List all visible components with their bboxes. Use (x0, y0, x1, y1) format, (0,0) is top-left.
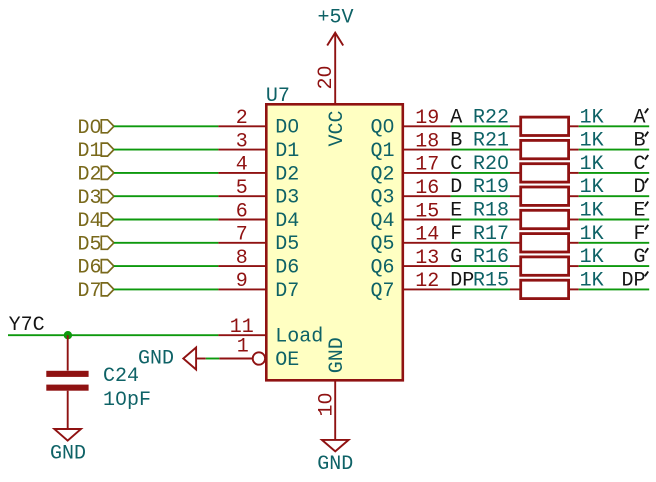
svg-text:D3: D3 (77, 187, 101, 210)
svg-text:19: 19 (415, 107, 439, 130)
svg-text:Q2: Q2 (370, 163, 394, 186)
svg-text:R19: R19 (473, 176, 509, 199)
svg-text:E: E (450, 200, 462, 223)
svg-text:Q0: Q0 (370, 117, 394, 140)
svg-text:D3: D3 (275, 187, 299, 210)
svg-text:R22: R22 (473, 106, 509, 129)
svg-text:1K: 1K (580, 269, 604, 292)
svg-text:D4: D4 (275, 210, 299, 233)
svg-text:D7: D7 (77, 280, 101, 303)
svg-text:10pF: 10pF (103, 389, 151, 412)
svg-text:A: A (450, 106, 462, 129)
svg-text:+5V: +5V (317, 7, 353, 30)
svg-text:GND: GND (317, 453, 353, 476)
svg-text:Q4: Q4 (370, 210, 394, 233)
svg-text:Q7: Q7 (370, 280, 394, 303)
svg-text:D0: D0 (77, 117, 101, 140)
svg-text:G: G (633, 246, 645, 269)
svg-text:GND: GND (326, 337, 349, 373)
svg-text:20: 20 (315, 65, 338, 89)
svg-text:1K: 1K (580, 200, 604, 223)
svg-text:C24: C24 (103, 365, 139, 388)
svg-text:D6: D6 (77, 257, 101, 280)
svg-text:D2: D2 (275, 163, 299, 186)
svg-text:4: 4 (236, 154, 248, 177)
svg-text:1K: 1K (580, 153, 604, 176)
svg-text:D4: D4 (77, 210, 101, 233)
svg-text:3: 3 (236, 130, 248, 153)
svg-text:Q5: Q5 (370, 233, 394, 256)
svg-text:OE: OE (275, 349, 299, 372)
svg-text:U7: U7 (266, 85, 290, 108)
svg-text:D2: D2 (77, 164, 101, 187)
svg-text:1K: 1K (580, 106, 604, 129)
svg-text:G: G (450, 246, 462, 269)
svg-text:17: 17 (415, 154, 439, 177)
svg-text:R16: R16 (473, 246, 509, 269)
svg-text:D6: D6 (275, 257, 299, 280)
svg-text:D1: D1 (275, 140, 299, 163)
svg-text:1K: 1K (580, 223, 604, 246)
svg-text:GND: GND (50, 443, 86, 466)
svg-text:6: 6 (236, 200, 248, 223)
svg-text:D: D (450, 176, 462, 199)
svg-text:E: E (633, 200, 645, 223)
svg-text:1K: 1K (580, 130, 604, 153)
svg-text:A: A (633, 106, 645, 129)
svg-text:F: F (450, 223, 462, 246)
svg-text:13: 13 (415, 247, 439, 270)
svg-text:D7: D7 (275, 280, 299, 303)
svg-text:VCC: VCC (326, 110, 349, 146)
svg-text:1: 1 (237, 336, 249, 359)
svg-text:14: 14 (415, 224, 439, 247)
svg-text:D1: D1 (77, 140, 101, 163)
svg-text:15: 15 (415, 200, 439, 223)
svg-text:C: C (450, 153, 462, 176)
svg-text:Y7C: Y7C (9, 314, 45, 337)
svg-text:18: 18 (415, 130, 439, 153)
svg-text:F: F (633, 223, 645, 246)
svg-text:R15: R15 (473, 269, 509, 292)
svg-text:Q3: Q3 (370, 187, 394, 210)
svg-text:5: 5 (236, 177, 248, 200)
svg-text:R21: R21 (473, 130, 509, 153)
svg-text:D5: D5 (77, 233, 101, 256)
svg-text:8: 8 (236, 247, 248, 270)
svg-text:12: 12 (415, 270, 439, 293)
svg-text:DP: DP (621, 269, 645, 292)
svg-text:D0: D0 (275, 117, 299, 140)
svg-text:B: B (633, 130, 645, 153)
svg-text:GND: GND (138, 348, 174, 371)
svg-text:R18: R18 (473, 200, 509, 223)
svg-text:D5: D5 (275, 233, 299, 256)
svg-text:1K: 1K (580, 176, 604, 199)
svg-text:7: 7 (236, 224, 248, 247)
svg-text:C: C (633, 153, 645, 176)
svg-text:B: B (450, 130, 462, 153)
svg-text:9: 9 (236, 270, 248, 293)
svg-text:10: 10 (315, 392, 338, 416)
svg-text:R17: R17 (473, 223, 509, 246)
svg-text:D: D (633, 176, 645, 199)
svg-text:1K: 1K (580, 246, 604, 269)
svg-text:Q1: Q1 (370, 140, 394, 163)
svg-text:2: 2 (236, 107, 248, 130)
svg-text:Q6: Q6 (370, 257, 394, 280)
svg-text:Load: Load (275, 326, 323, 349)
svg-text:DP: DP (450, 269, 474, 292)
svg-text:16: 16 (415, 177, 439, 200)
